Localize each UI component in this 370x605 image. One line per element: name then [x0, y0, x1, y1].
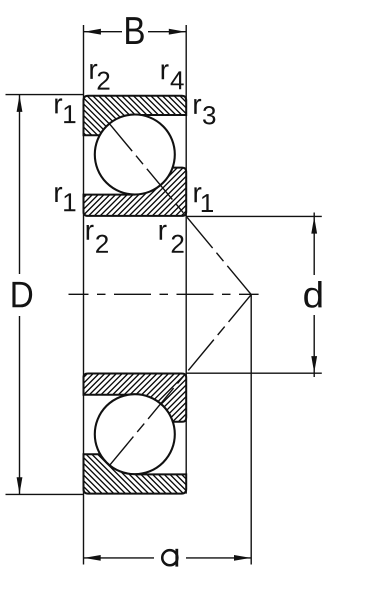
arrow a right	[234, 555, 251, 561]
ball lower	[95, 394, 175, 474]
arrow a left	[84, 555, 101, 561]
outer ring upper section	[84, 96, 187, 135]
ball upper	[95, 115, 175, 195]
arrow B left	[84, 29, 101, 35]
dimension d line	[313, 213, 315, 276]
bore extension line bottom (d)	[186, 372, 322, 374]
label r2 bore-left	[87, 225, 108, 253]
right face line	[185, 25, 187, 494]
apex extension line	[250, 295, 252, 565]
arrow B right	[169, 29, 186, 35]
label r2 bore-right	[160, 225, 184, 253]
label B	[126, 17, 144, 44]
inner ring upper section	[84, 168, 187, 216]
arrow d bottom	[311, 356, 317, 373]
label r1 left-lower	[55, 187, 75, 211]
dimension a line	[84, 557, 154, 559]
label r1 left-upper	[55, 98, 75, 123]
contact angle line lower (dash-dot)	[110, 295, 252, 466]
label r2 top-left	[90, 64, 109, 90]
outer ring lower section	[84, 454, 187, 493]
inner ring lower section	[84, 374, 187, 422]
left face line	[83, 25, 85, 565]
label d	[304, 281, 321, 308]
dimension B line	[84, 31, 122, 33]
arrow d top	[311, 217, 317, 234]
D extension line bottom	[6, 493, 84, 495]
label r1 right-lower	[194, 187, 213, 212]
label r4 top-right	[162, 64, 184, 89]
centerline axis (dash-dot)	[69, 293, 259, 295]
label a	[162, 549, 178, 567]
D extension line top	[6, 94, 84, 96]
dimension D line	[19, 95, 21, 274]
contact angle line upper (dash-dot)	[110, 124, 252, 295]
label r3 right-upper	[194, 99, 215, 125]
arrow D top	[17, 95, 23, 112]
bore extension line top (d)	[186, 215, 322, 217]
label D	[12, 282, 32, 307]
arrow D bottom	[17, 477, 23, 494]
